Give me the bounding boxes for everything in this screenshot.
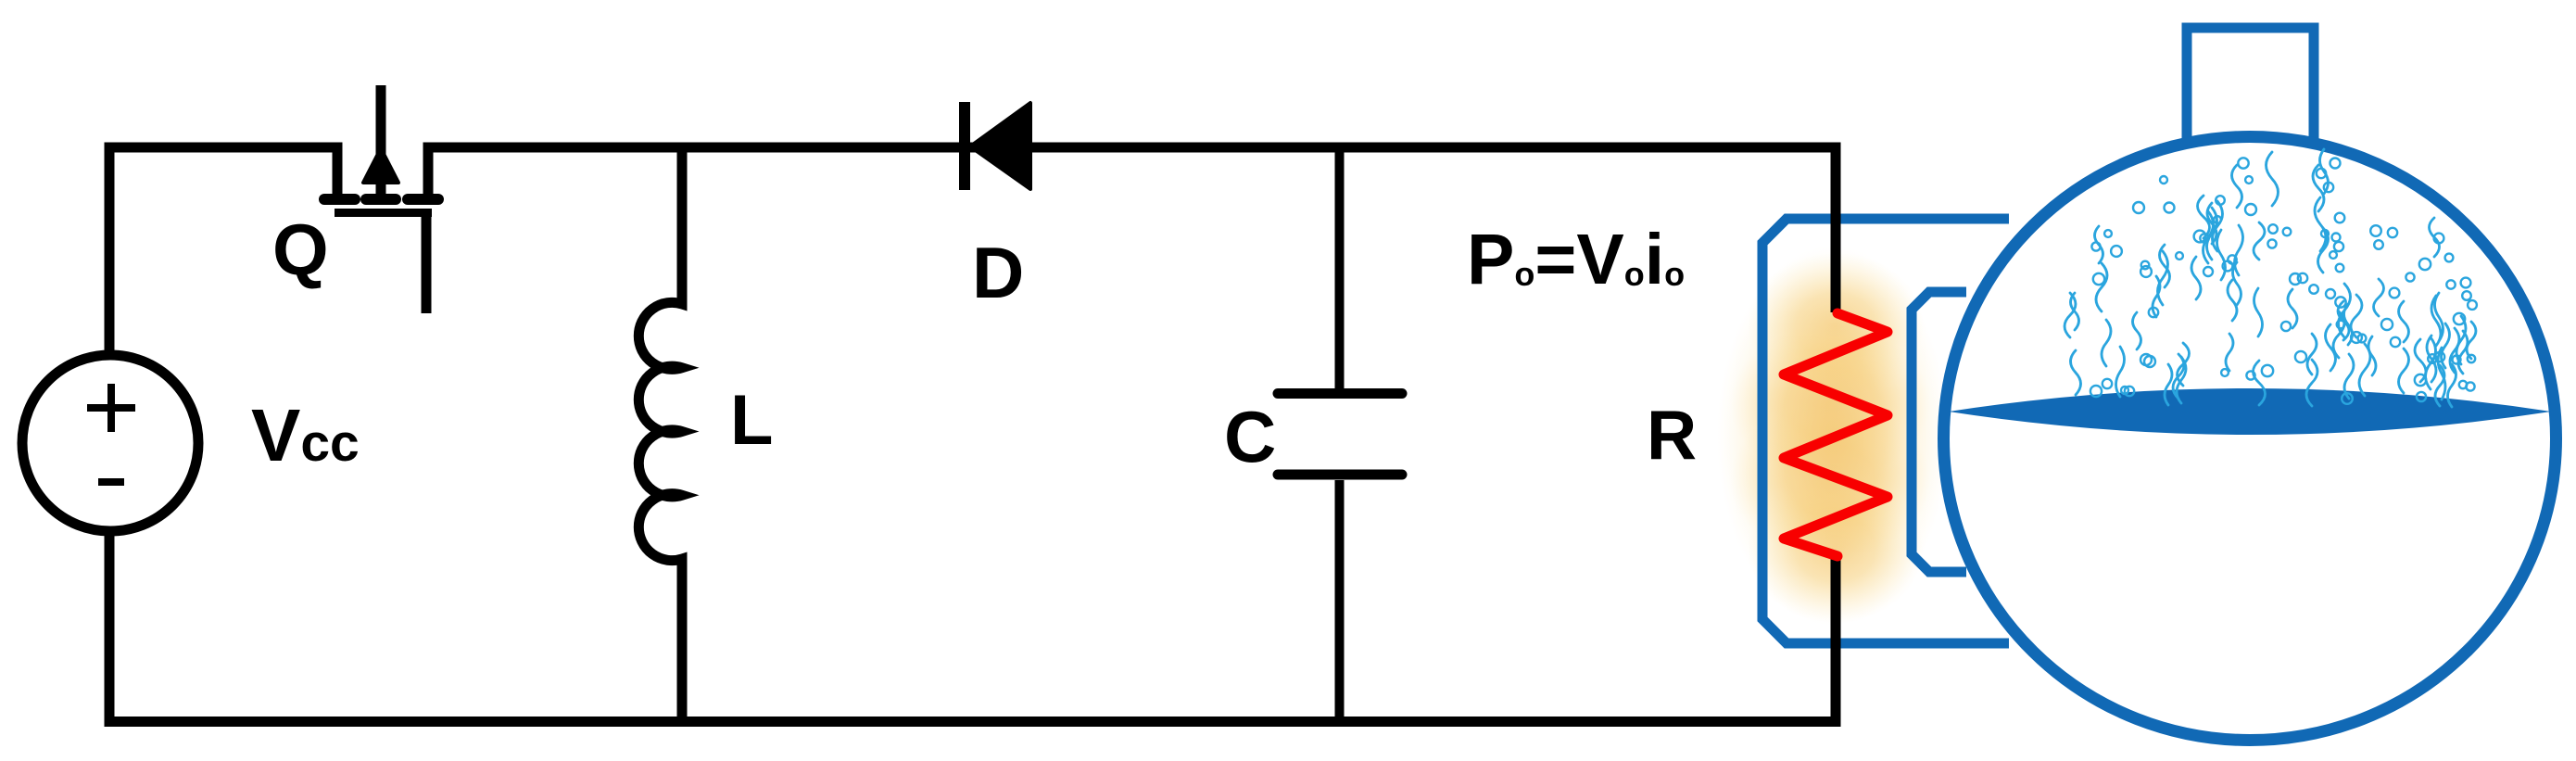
transistor Q: gate lead down — [422, 212, 432, 313]
heater glow — [1717, 246, 1949, 626]
wire: transistor drain to top bus and down right branch — [428, 147, 1836, 312]
svg-text:Vcc: Vcc — [251, 394, 360, 476]
svg-text:D: D — [972, 232, 1024, 313]
transistor Q: gate bar — [335, 209, 432, 217]
svg-text:Po=Voio: Po=Voio — [1467, 220, 1685, 299]
inductor L — [638, 147, 682, 721]
Vcc plus sign — [87, 384, 135, 432]
steam wisps — [2065, 149, 2476, 407]
svg-text:Q: Q — [272, 209, 329, 290]
svg-text:L: L — [730, 381, 773, 460]
bubbles — [2090, 158, 2477, 404]
capacitor C: bottom lead — [1335, 480, 1345, 721]
Vcc minus sign — [98, 478, 124, 486]
resistor R heating element (red zigzag) — [1784, 313, 1888, 556]
transistor Q: contact bars — [324, 194, 438, 205]
capacitor C: top plate — [1278, 388, 1402, 399]
heating jacket outer wall — [1762, 219, 2009, 643]
capacitor C: top lead — [1335, 147, 1345, 388]
transistor Q: arrow lead — [376, 85, 386, 196]
voltage source Vcc circle — [22, 355, 198, 531]
heating jacket inner wall — [1912, 292, 1966, 572]
svg-text:R: R — [1647, 396, 1697, 474]
water surface — [1949, 388, 2551, 435]
wire: top-left loop (Vcc top to transistor source) — [109, 147, 337, 352]
diode D: cathode bar — [959, 102, 970, 190]
flask neck — [2187, 28, 2314, 141]
capacitor C: bottom plate — [1278, 470, 1402, 480]
wire: bottom bus — [109, 531, 1836, 721]
diode D: triangle — [970, 103, 1030, 189]
svg-text:C: C — [1224, 396, 1276, 477]
transistor Q: arrowhead — [363, 148, 398, 183]
flask bulb — [1944, 137, 2557, 741]
